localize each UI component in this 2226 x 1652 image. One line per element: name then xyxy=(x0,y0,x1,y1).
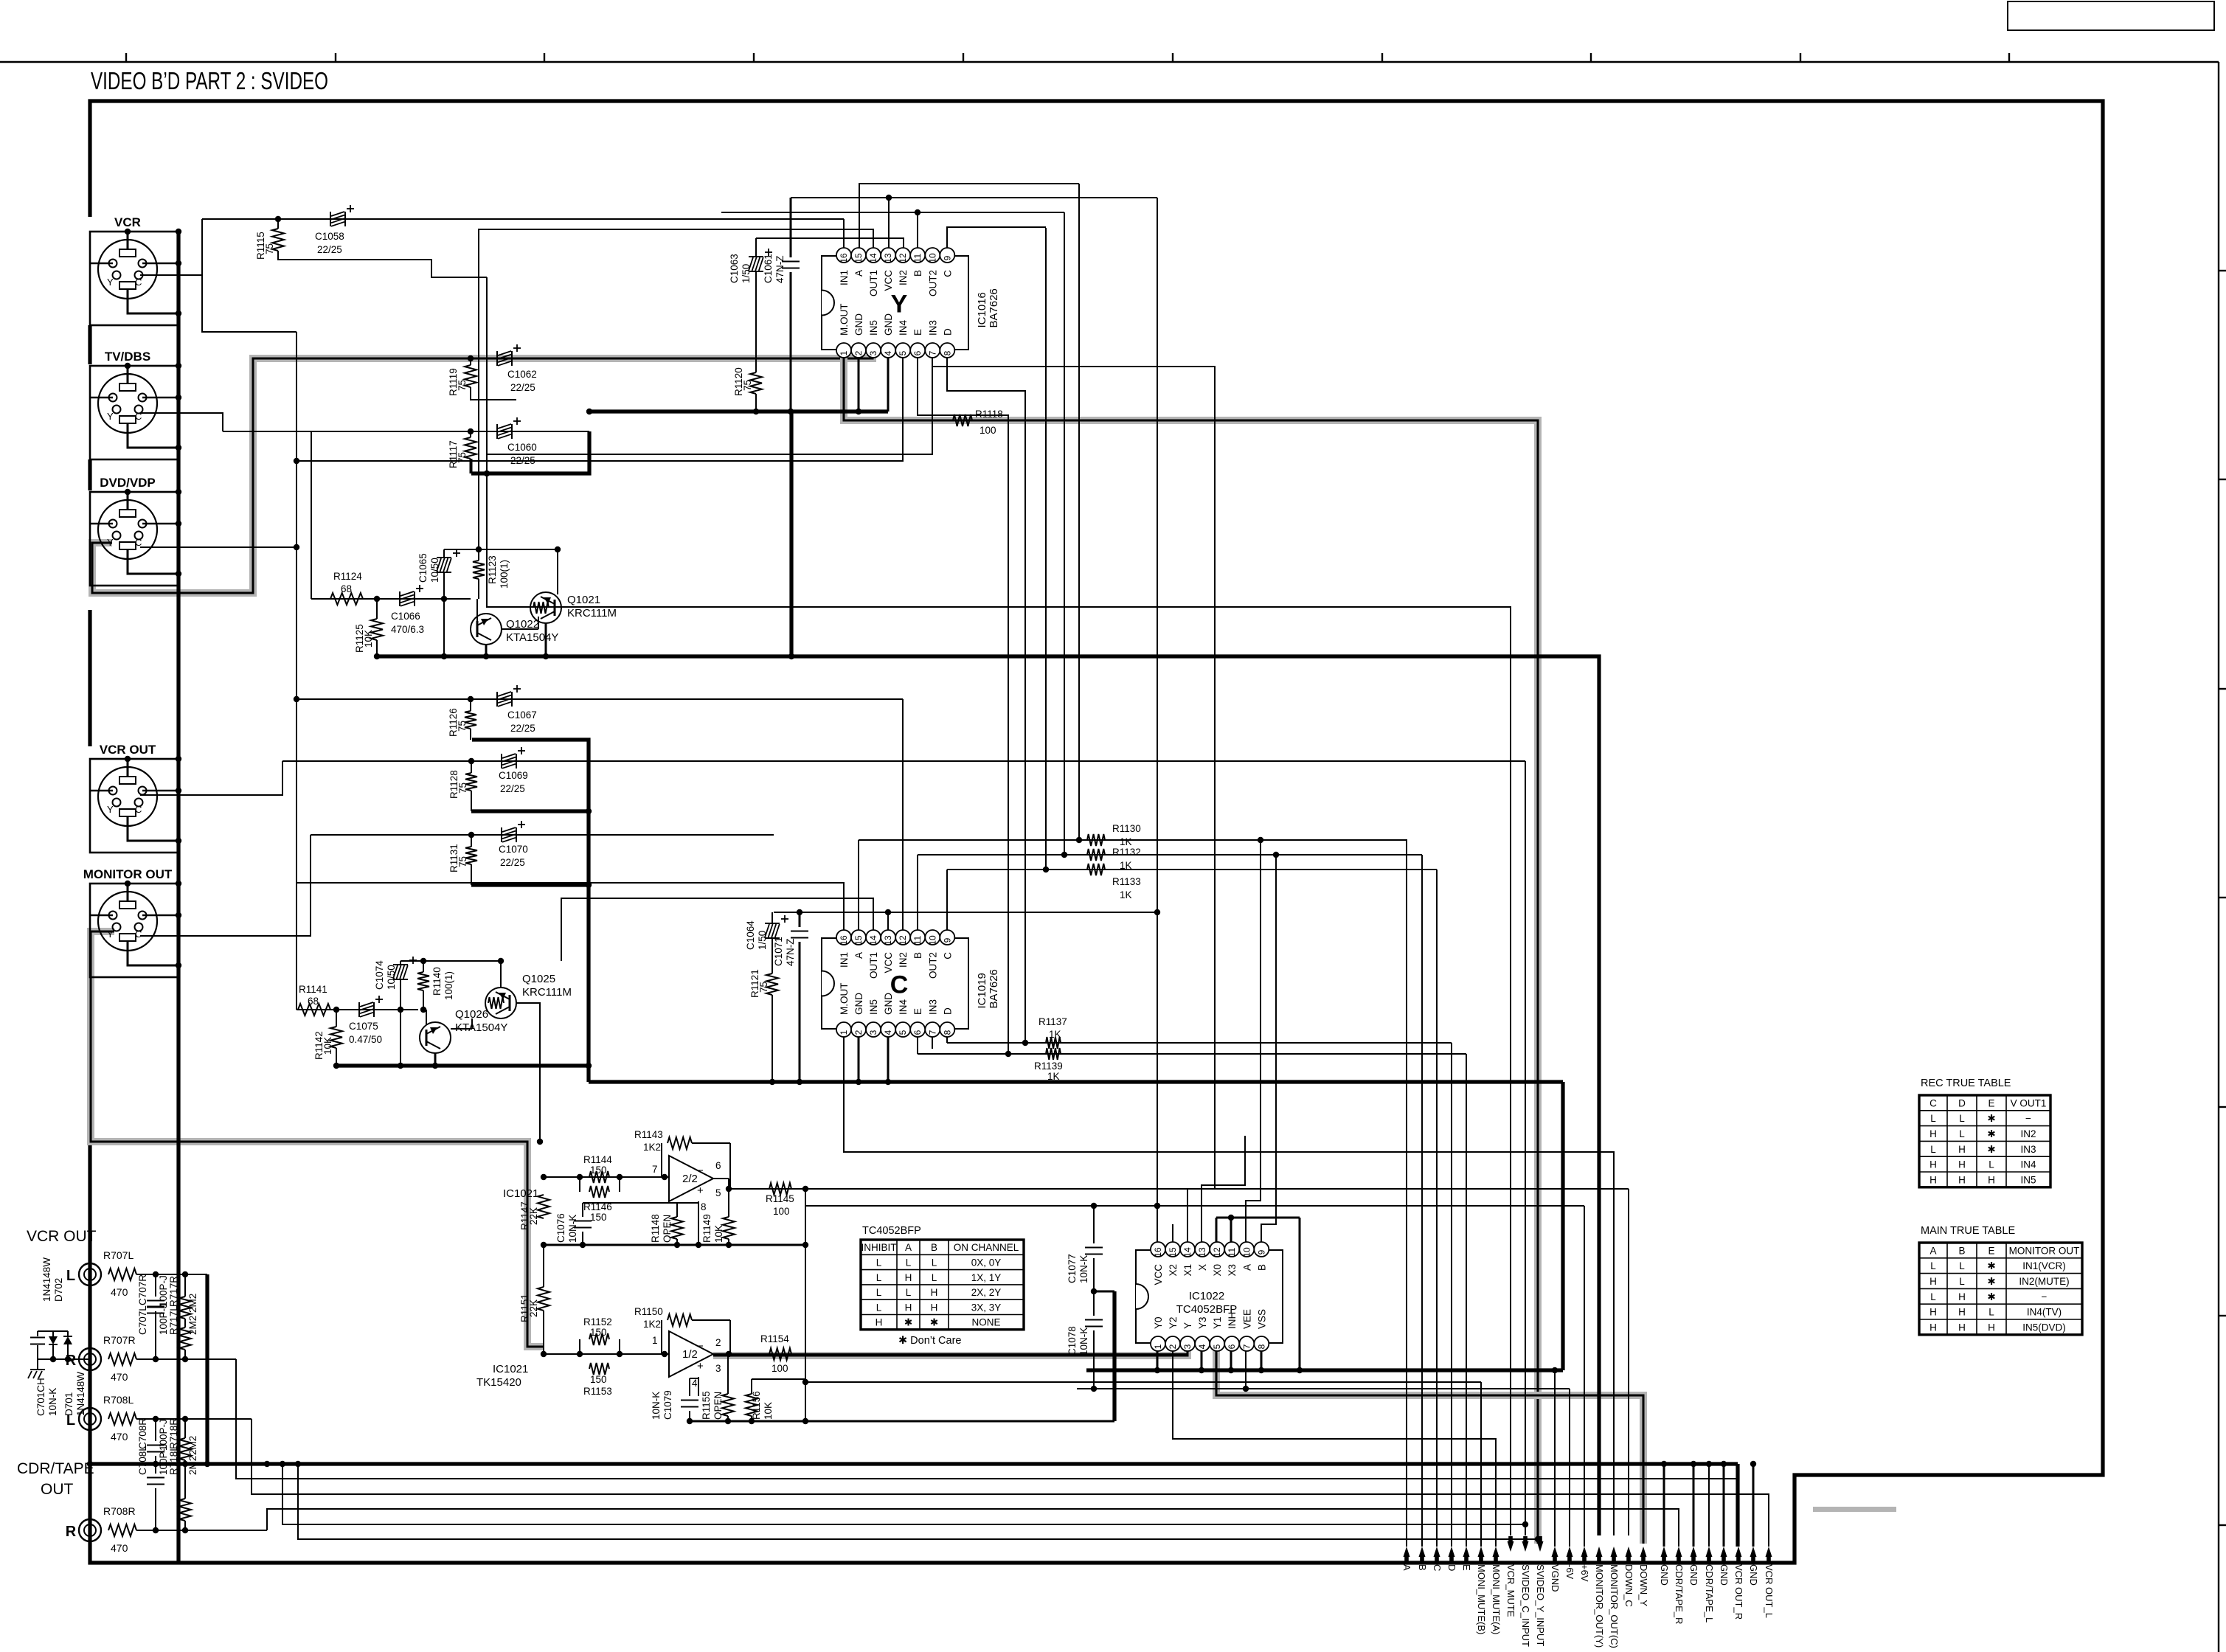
svg-text:R1124: R1124 xyxy=(333,571,362,582)
connector box TV/DBS xyxy=(90,366,178,459)
wire TV/DBS C stub xyxy=(140,413,223,431)
resistor R1139 xyxy=(1034,1048,1063,1082)
svg-text:470: 470 xyxy=(111,1542,128,1554)
svg-text:75: 75 xyxy=(457,856,468,867)
resistor R1155 xyxy=(701,1354,734,1424)
svg-text:✱ Don’t Care: ✱ Don’t Care xyxy=(898,1335,962,1347)
wire gray net MONITOR OUT Y to op-amp xyxy=(91,931,544,1347)
wire C1077/C1078 junction xyxy=(1091,1288,1114,1421)
wire VEE line y=1883 xyxy=(1077,1351,1570,1392)
capacitor C1060 xyxy=(497,417,537,466)
wire E route xyxy=(918,358,1008,1054)
svg-text:22/25: 22/25 xyxy=(317,244,342,255)
svg-text:IN1: IN1 xyxy=(839,270,850,285)
svg-text:MONITOR_OUT(C): MONITOR_OUT(C) xyxy=(1609,1564,1620,1648)
svg-text:IN4: IN4 xyxy=(898,999,909,1016)
svg-text:VCC: VCC xyxy=(1153,1264,1164,1285)
svg-text:5: 5 xyxy=(898,1030,908,1035)
svg-text:C708R: C708R xyxy=(137,1418,148,1449)
svg-text:470: 470 xyxy=(111,1286,128,1298)
svg-text:R718R: R718R xyxy=(168,1418,179,1449)
svg-text:L: L xyxy=(932,1257,937,1268)
svg-text:DOWN_C: DOWN_C xyxy=(1623,1564,1634,1607)
svg-text:R1118: R1118 xyxy=(975,409,1003,420)
wire op2 gnd line y=1927 xyxy=(690,1420,1114,1423)
wire CDR L line xyxy=(136,1416,252,1422)
svg-text:B: B xyxy=(1417,1564,1428,1571)
svg-text:6: 6 xyxy=(715,1160,721,1171)
wire op1 pin8 xyxy=(696,1201,701,1248)
capacitor C1078 xyxy=(1067,1291,1103,1389)
net arrow DOWN_Y xyxy=(1638,1547,1649,1606)
svg-text:✱: ✱ xyxy=(904,1317,912,1328)
wire VCR OUT L line xyxy=(136,1271,207,1277)
svg-text:C701CH: C701CH xyxy=(35,1378,46,1416)
svg-text:MONI_MUTE(A): MONI_MUTE(A) xyxy=(1491,1564,1502,1634)
svg-text:C: C xyxy=(942,952,953,959)
svg-text:10N-K: 10N-K xyxy=(1078,1255,1089,1283)
svg-text:IN2: IN2 xyxy=(2020,1128,2036,1139)
resistor R1153 xyxy=(583,1363,612,1397)
wire Q1025 to monitor net xyxy=(516,1003,543,1145)
net arrow B xyxy=(1417,1547,1428,1571)
svg-text:+: + xyxy=(697,1360,704,1372)
resistor R717L xyxy=(168,1274,198,1335)
svg-text:16: 16 xyxy=(839,935,849,945)
svg-text:NONE: NONE xyxy=(971,1317,1000,1328)
svg-text:B: B xyxy=(1958,1245,1965,1256)
svg-text:GND: GND xyxy=(853,313,864,336)
wire IN2 line y=323 xyxy=(756,238,904,248)
svg-text:75: 75 xyxy=(457,721,468,732)
wire IN3 route xyxy=(484,358,932,476)
svg-text:1: 1 xyxy=(839,350,849,355)
svg-text:R1152: R1152 xyxy=(583,1316,612,1327)
svg-text:68: 68 xyxy=(341,583,352,594)
svg-text:VIDEO B’D PART 2 : SVIDEO: VIDEO B’D PART 2 : SVIDEO xyxy=(91,67,328,94)
svg-text:0.47/50: 0.47/50 xyxy=(349,1034,382,1045)
svg-text:MONITOR OUT: MONITOR OUT xyxy=(2009,1245,2080,1256)
transistor Q1021 xyxy=(502,549,617,659)
resistor R1148 xyxy=(650,1203,683,1248)
svg-text:150: 150 xyxy=(590,1165,607,1176)
svg-text:R1145: R1145 xyxy=(766,1193,794,1204)
svg-text:R1154: R1154 xyxy=(760,1333,789,1344)
svg-text:470: 470 xyxy=(111,1431,128,1443)
resistor R1117 xyxy=(448,431,476,473)
wire VCR C down xyxy=(202,275,297,332)
svg-text:5: 5 xyxy=(715,1187,721,1198)
svg-text:X3: X3 xyxy=(1227,1264,1238,1277)
svg-text:H: H xyxy=(1929,1159,1937,1170)
svg-text:L: L xyxy=(1930,1144,1936,1155)
wire C1070 line y=1132 xyxy=(311,832,774,838)
svg-text:H: H xyxy=(931,1287,938,1298)
resistor R1124 xyxy=(330,571,363,605)
gray bar bottom right xyxy=(1813,1507,1896,1512)
svg-text:VCR: VCR xyxy=(114,215,141,229)
svg-text:TC4052BFP: TC4052BFP xyxy=(1176,1303,1238,1316)
svg-text:13: 13 xyxy=(1197,1247,1207,1257)
svg-text:+: + xyxy=(697,1184,704,1197)
title text xyxy=(91,67,328,94)
svg-text:KTA1504Y: KTA1504Y xyxy=(455,1021,507,1034)
svg-text:R1130: R1130 xyxy=(1112,823,1141,834)
svg-text:75: 75 xyxy=(457,452,468,463)
resistor R1121 xyxy=(749,969,778,1082)
svg-text:47N-Z: 47N-Z xyxy=(774,255,786,283)
svg-text:R717L: R717L xyxy=(168,1305,179,1335)
svg-text:68: 68 xyxy=(308,996,319,1007)
wire OUT2 route xyxy=(932,358,1215,1242)
capacitor C1062 xyxy=(497,344,537,393)
wire IC1016 pin4 gnd xyxy=(887,358,890,412)
net arrow D xyxy=(1446,1547,1457,1571)
svg-text:C: C xyxy=(890,971,909,999)
svg-text:H: H xyxy=(1988,1174,1995,1185)
svg-text:16: 16 xyxy=(839,253,849,263)
svg-text:H: H xyxy=(1929,1276,1937,1287)
svg-text:R717R: R717R xyxy=(168,1276,179,1307)
resistor R707R xyxy=(103,1334,136,1383)
wire OUT1 line y=311 xyxy=(479,229,873,549)
net arrow VCR OUT_R xyxy=(1733,1547,1744,1620)
wire VCC vertical x=1569 xyxy=(1154,198,1160,1242)
svg-text:VSS: VSS xyxy=(1256,1309,1267,1329)
wire IN1 line y=297 xyxy=(202,216,844,248)
svg-text:R1123: R1123 xyxy=(487,555,498,584)
svg-text:R1153: R1153 xyxy=(583,1386,612,1397)
wire op1 output xyxy=(713,1179,732,1192)
RCA jack CDR/TAPE L xyxy=(66,1408,101,1430)
svg-text:IC1016: IC1016 xyxy=(976,292,988,327)
svg-text:GND: GND xyxy=(1748,1564,1759,1586)
svg-text:C1070: C1070 xyxy=(499,844,528,855)
svg-text:150: 150 xyxy=(590,1327,607,1338)
wire C line y=308 xyxy=(947,227,1046,248)
svg-text:C: C xyxy=(135,929,142,940)
net arrow -6V xyxy=(1564,1547,1575,1580)
svg-text:100(1): 100(1) xyxy=(499,560,510,589)
label R1144 value xyxy=(0,0,1,1)
wire VCC line y=1635 xyxy=(805,1203,1584,1209)
svg-text:D: D xyxy=(1958,1097,1966,1108)
svg-text:14: 14 xyxy=(868,253,878,263)
diode D701 cap cluster xyxy=(30,1331,90,1416)
svg-text:10N-K: 10N-K xyxy=(1078,1327,1089,1356)
wire x=1092 vertical xyxy=(802,1189,808,1424)
table MAIN TRUE TABLE xyxy=(1919,1225,2082,1335)
svg-text:C: C xyxy=(135,537,142,548)
svg-text:BA7626: BA7626 xyxy=(988,288,1000,327)
svg-text:R1156: R1156 xyxy=(751,1391,762,1420)
svg-text:L: L xyxy=(932,1272,937,1283)
svg-text:E: E xyxy=(912,1008,923,1015)
svg-text:3: 3 xyxy=(868,350,878,355)
net arrow E xyxy=(1461,1547,1472,1571)
wire op2 input line xyxy=(541,1351,669,1357)
svg-text:C: C xyxy=(135,277,142,288)
capacitor C1075 xyxy=(349,996,383,1045)
wire IC1019 gnd pins xyxy=(859,1037,888,1082)
svg-text:5: 5 xyxy=(898,350,908,355)
op-amp U1a IC1021 2/2 xyxy=(503,1156,721,1212)
svg-text:6: 6 xyxy=(912,1030,923,1035)
svg-text:470: 470 xyxy=(111,1371,128,1383)
net arrow CDR/TAPE_L xyxy=(1704,1547,1715,1622)
transistor Q1022 xyxy=(471,599,558,659)
capacitor C1061 xyxy=(763,198,800,410)
resistor R1133 xyxy=(1087,864,1141,900)
svg-text:E: E xyxy=(912,329,923,336)
svg-text:IN4(TV): IN4(TV) xyxy=(2027,1307,2062,1318)
svg-text:14: 14 xyxy=(1182,1247,1193,1257)
svg-text:10N-K: 10N-K xyxy=(567,1215,578,1243)
svg-text:4: 4 xyxy=(692,1378,698,1389)
wire R1145 line y=1612 xyxy=(729,1186,1629,1192)
svg-text:150: 150 xyxy=(590,1374,607,1385)
wire clamp top line y=745 xyxy=(444,546,561,552)
wire TV/DBS bottom pin xyxy=(128,436,181,451)
net arrow GND xyxy=(1719,1547,1730,1586)
wire IC1022 pin12/11 thick xyxy=(1216,1215,1300,1370)
svg-text:C1065: C1065 xyxy=(417,553,429,583)
wire IC1022 gnd thick y=1858 xyxy=(1086,1367,1563,1373)
wire IC1019 IN3 stub xyxy=(932,1037,933,1049)
resistor R718R xyxy=(168,1418,198,1530)
capacitor C1077 xyxy=(1067,1206,1103,1291)
svg-text:1: 1 xyxy=(839,1030,849,1035)
svg-text:9: 9 xyxy=(942,937,952,943)
svg-text:OUT2: OUT2 xyxy=(927,952,938,979)
svg-text:14: 14 xyxy=(868,935,878,945)
svg-text:10K: 10K xyxy=(763,1402,774,1420)
svg-text:H: H xyxy=(1988,1322,1995,1333)
wire MONITOR C stub xyxy=(140,835,311,936)
svg-text:D702: D702 xyxy=(53,1278,64,1302)
svg-text:7: 7 xyxy=(927,1030,937,1035)
resistor R1151 xyxy=(519,1245,549,1354)
resistor R1147 xyxy=(519,1195,549,1230)
svg-text:C1062: C1062 xyxy=(507,369,537,380)
wire op2 pin4 xyxy=(698,1377,699,1396)
svg-text:C: C xyxy=(1432,1564,1443,1571)
wire IC1022 pin13 select xyxy=(1202,1136,1245,1242)
svg-text:75: 75 xyxy=(457,782,468,794)
svg-text:Y: Y xyxy=(107,929,114,940)
svg-text:15: 15 xyxy=(853,935,864,945)
resistor R708L xyxy=(103,1394,136,1443)
svg-text:MONITOR_OUT(Y): MONITOR_OUT(Y) xyxy=(1594,1564,1605,1648)
svg-text:TV/DBS: TV/DBS xyxy=(105,350,150,364)
table REC TRUE TABLE xyxy=(1919,1077,2050,1187)
svg-text:VEE: VEE xyxy=(1241,1309,1252,1329)
svg-text:3X, 3Y: 3X, 3Y xyxy=(971,1302,1002,1313)
resistor R1126 xyxy=(448,699,476,740)
wire IC1022 pin8 lead xyxy=(1261,1351,1263,1370)
svg-text:Y: Y xyxy=(891,291,908,319)
svg-text:R1132: R1132 xyxy=(1112,847,1141,858)
wire DVD/VDP upper pins xyxy=(90,489,181,527)
svg-text:L: L xyxy=(906,1257,912,1268)
net arrow MONITOR_OUT(Y) xyxy=(1594,1547,1605,1648)
resistor R1125 xyxy=(354,599,383,659)
wire op1 gnd line y=1688 xyxy=(541,1242,808,1248)
svg-text:VCR_MUTE: VCR_MUTE xyxy=(1505,1564,1516,1617)
IC body IC1016 xyxy=(822,256,968,350)
net arrow SVIDEO_C_INPUT xyxy=(1520,1536,1531,1647)
svg-text:R1144: R1144 xyxy=(583,1154,612,1165)
svg-text:VCR OUT: VCR OUT xyxy=(27,1228,97,1245)
capacitor C1064 xyxy=(745,912,788,974)
IC IC1016 pin circles xyxy=(836,248,954,358)
svg-text:IN3: IN3 xyxy=(927,999,938,1015)
svg-text:L: L xyxy=(1959,1128,1965,1139)
svg-text:OUT1: OUT1 xyxy=(868,270,879,296)
svg-text:OUT1: OUT1 xyxy=(868,952,879,979)
svg-text:4: 4 xyxy=(883,350,893,355)
wire VCC line y=268 xyxy=(791,195,1157,248)
svg-text:C1064: C1064 xyxy=(745,920,756,950)
net arrow SVIDEO_Y_INPUT xyxy=(1535,1536,1546,1646)
wire VCR_MUTE route xyxy=(487,277,1511,1535)
svg-text:L: L xyxy=(1930,1291,1936,1302)
wire thick x=2119 xyxy=(1561,1082,1564,1370)
wire MONI_MUTE(A) line xyxy=(1173,1351,1496,1547)
svg-text:IN2: IN2 xyxy=(898,270,909,285)
net arrow GND xyxy=(1659,1547,1670,1586)
svg-text:L: L xyxy=(906,1287,912,1298)
IC IC1016 pin labels xyxy=(839,270,1000,336)
wire svideo record Y line xyxy=(298,1464,1541,1542)
svg-text:12: 12 xyxy=(898,935,908,945)
svg-text:22/25: 22/25 xyxy=(510,723,535,734)
resistor R1118 xyxy=(953,409,1003,436)
svg-text:L: L xyxy=(1959,1260,1965,1271)
svg-text:Y: Y xyxy=(107,277,114,288)
capacitor C707L xyxy=(137,1274,169,1335)
svg-text:H: H xyxy=(905,1302,912,1313)
svg-text:C1066: C1066 xyxy=(391,611,420,622)
wire B col xyxy=(1421,855,1423,1547)
svg-text:1K: 1K xyxy=(1049,1029,1061,1040)
title block box top right xyxy=(2008,1,2214,30)
wire GND-C thick left y=1445 xyxy=(336,1063,589,1069)
capacitor C1070 xyxy=(499,821,528,868)
svg-text:8: 8 xyxy=(701,1201,707,1212)
wire MONITOR_OUT(Y) thick xyxy=(378,653,1599,1535)
svg-text:MONITOR OUT: MONITOR OUT xyxy=(83,867,173,881)
svg-text:1K2: 1K2 xyxy=(643,1142,661,1153)
svg-text:R1139: R1139 xyxy=(1034,1061,1063,1072)
svg-text:2: 2 xyxy=(1168,1344,1178,1349)
svg-text:C1060: C1060 xyxy=(507,442,537,453)
svg-text:DOWN_Y: DOWN_Y xyxy=(1638,1564,1649,1606)
net arrow VCR OUT_L xyxy=(1764,1547,1775,1618)
svg-text:REC TRUE TABLE: REC TRUE TABLE xyxy=(1921,1077,2011,1089)
capacitor C1079 xyxy=(651,1378,698,1424)
svg-text:R1141: R1141 xyxy=(299,984,327,995)
svg-text:H: H xyxy=(1958,1291,1966,1302)
resistor R1130 xyxy=(1087,823,1141,847)
svg-text:Q1025: Q1025 xyxy=(522,973,555,985)
RCA jack VCR OUT L xyxy=(66,1263,101,1285)
wire op2 output xyxy=(713,1351,1187,1357)
wire IC1019 M.OUT line xyxy=(844,1037,1614,1535)
page top border with zone ticks xyxy=(0,53,2219,62)
capacitor C707R xyxy=(137,1274,169,1359)
connector box DVD/VDP xyxy=(90,492,178,586)
svg-text:100: 100 xyxy=(979,425,996,436)
svg-text:VCR OUT: VCR OUT xyxy=(100,743,156,757)
svg-text:1: 1 xyxy=(1153,1344,1163,1349)
capacitor C1067 xyxy=(497,685,537,734)
wire DVD C stub xyxy=(140,546,297,548)
svg-text:CDR/TAPE_L: CDR/TAPE_L xyxy=(1704,1564,1715,1622)
wire VCR OUT upper pins xyxy=(90,756,181,794)
net arrow GND xyxy=(1688,1547,1699,1586)
capacitor C1065 xyxy=(417,549,460,659)
svg-text:C: C xyxy=(942,270,953,277)
wire IC1019 OUT1 line xyxy=(561,898,873,961)
svg-text:−: − xyxy=(697,1165,704,1177)
wire IC1022 pin1 lead xyxy=(1157,1351,1159,1370)
svg-text:22K: 22K xyxy=(528,1207,539,1225)
svg-text:H: H xyxy=(1929,1128,1937,1139)
svg-text:Q1021: Q1021 xyxy=(567,594,600,606)
svg-text:L: L xyxy=(1989,1159,1994,1170)
svg-text:−: − xyxy=(2025,1113,2031,1124)
net arrow +6V xyxy=(1579,1547,1590,1582)
wire IC1022 pin9 select B xyxy=(1261,852,1279,1242)
svg-text:15: 15 xyxy=(853,253,864,263)
wire IC1016 pin2 gnd xyxy=(858,358,860,412)
svg-text:9: 9 xyxy=(942,255,952,260)
svg-text:IC1021: IC1021 xyxy=(503,1187,538,1200)
svg-text:C1063: C1063 xyxy=(729,254,740,283)
svg-text:1X, 1Y: 1X, 1Y xyxy=(971,1272,1002,1283)
svg-text:H: H xyxy=(905,1272,912,1283)
wire IC1019 IN1 line xyxy=(297,883,844,930)
svg-text:1: 1 xyxy=(652,1335,658,1346)
wire VCR C stub xyxy=(140,219,202,275)
svg-text:IN3: IN3 xyxy=(2020,1144,2036,1155)
resistor R1140 xyxy=(417,961,454,1013)
svg-text:C: C xyxy=(1929,1097,1937,1108)
svg-text:1/50: 1/50 xyxy=(741,264,752,283)
svg-text:11: 11 xyxy=(1227,1247,1237,1257)
svg-text:VCR OUT_R: VCR OUT_R xyxy=(1733,1564,1744,1620)
svg-text:GND: GND xyxy=(1719,1564,1730,1586)
svg-text:E: E xyxy=(1461,1564,1472,1571)
svg-text:4: 4 xyxy=(1197,1344,1207,1349)
wire R1132 line y=1159 xyxy=(918,855,1422,930)
net arrow MONI_MUTE(A) xyxy=(1491,1547,1502,1634)
net arrow C xyxy=(1432,1547,1443,1571)
svg-text:E: E xyxy=(1988,1097,1994,1108)
label CDR/TAPE OUT xyxy=(17,1460,94,1498)
wire IN4 route xyxy=(294,332,903,1010)
svg-text:IN5: IN5 xyxy=(868,999,879,1015)
svg-text:100: 100 xyxy=(772,1363,788,1374)
capacitor C1063 xyxy=(729,238,772,372)
connector box MONITOR OUT xyxy=(90,884,178,977)
svg-text:IN1(VCR): IN1(VCR) xyxy=(2022,1260,2066,1271)
svg-text:75: 75 xyxy=(457,380,468,391)
svg-text:H: H xyxy=(1929,1307,1937,1318)
wire VGND col xyxy=(1554,1370,1556,1547)
wire gray net IC1022 Y1 to DOWN_Y xyxy=(1216,1351,1643,1544)
